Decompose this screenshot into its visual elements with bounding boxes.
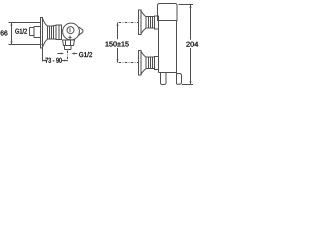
arrowhead 73-90 right xyxy=(64,60,67,62)
arrowhead G1/2 outlet left xyxy=(61,53,64,55)
union nut at body xyxy=(56,25,62,40)
arrowhead 150 top xyxy=(117,23,119,26)
arrowhead 66 bottom xyxy=(11,41,13,44)
body cap xyxy=(158,4,178,21)
top knurl hatches xyxy=(149,17,153,29)
bottom right tab xyxy=(177,74,182,85)
outlet centerline xyxy=(67,51,69,63)
204 extension line bottom xyxy=(182,84,193,86)
204 extension line top xyxy=(179,4,194,6)
middle collar xyxy=(54,26,57,40)
right drawing: top centerline xyxy=(119,22,139,24)
knurl hatch lines xyxy=(50,26,52,39)
arrowhead 150 bottom xyxy=(117,59,119,62)
flange cone xyxy=(43,18,48,47)
label G1/2 wall xyxy=(15,29,27,34)
arrowhead G1/2 outlet right xyxy=(71,53,74,55)
73-90 dimension line xyxy=(43,60,68,62)
top union nut xyxy=(155,16,159,29)
top knurled union xyxy=(146,17,155,29)
dimension line 66 xyxy=(11,23,13,45)
arrowhead 66 top xyxy=(11,23,13,26)
73-90 extension line below flange xyxy=(42,49,44,62)
background xyxy=(0,0,200,91)
left drawing: extension line top of 66 dim xyxy=(9,22,41,24)
outlet nut xyxy=(63,40,75,46)
bottom outlet stub xyxy=(161,73,167,85)
flange rim xyxy=(41,18,43,49)
label G1/2 outlet xyxy=(79,52,92,57)
small cross mark xyxy=(69,36,72,41)
label 66 xyxy=(1,31,8,36)
outlet nut facets xyxy=(66,40,71,46)
label 204 xyxy=(186,42,198,47)
bottom union nut xyxy=(155,57,159,70)
dimension line 204 xyxy=(190,5,192,85)
body tube left edge xyxy=(158,29,160,73)
body tube right edge xyxy=(176,21,178,85)
arrowhead 204 bottom xyxy=(190,81,192,84)
union nut facet xyxy=(58,25,60,40)
union nut at wall xyxy=(34,27,41,38)
bottom bell rim xyxy=(139,51,142,76)
wall pipe stub G1/2 xyxy=(30,28,35,36)
top bell cone xyxy=(141,11,146,34)
inner circle xyxy=(67,27,74,34)
screw slot xyxy=(69,28,71,32)
label 150±15 xyxy=(106,42,129,47)
outlet stub xyxy=(65,46,72,50)
arrowhead 204 top xyxy=(190,5,192,8)
arrowhead 73-90 left xyxy=(43,60,46,62)
knurled section xyxy=(48,26,54,39)
dimension line 150±15 xyxy=(117,23,119,63)
bottom knurl hatches xyxy=(149,57,153,69)
ear bump right xyxy=(79,27,83,35)
label 73 - 90 xyxy=(45,58,61,63)
extension line bottom of 66 dim xyxy=(9,44,42,46)
top bell rim xyxy=(139,10,142,35)
G1/2 outlet dimension arrow tails xyxy=(58,53,78,55)
body circle (handle end view) xyxy=(63,23,80,40)
bottom bell cone xyxy=(141,51,146,74)
bottom knurled union xyxy=(146,57,155,69)
bottom centerline xyxy=(119,62,139,64)
body bottom edge xyxy=(159,72,177,74)
